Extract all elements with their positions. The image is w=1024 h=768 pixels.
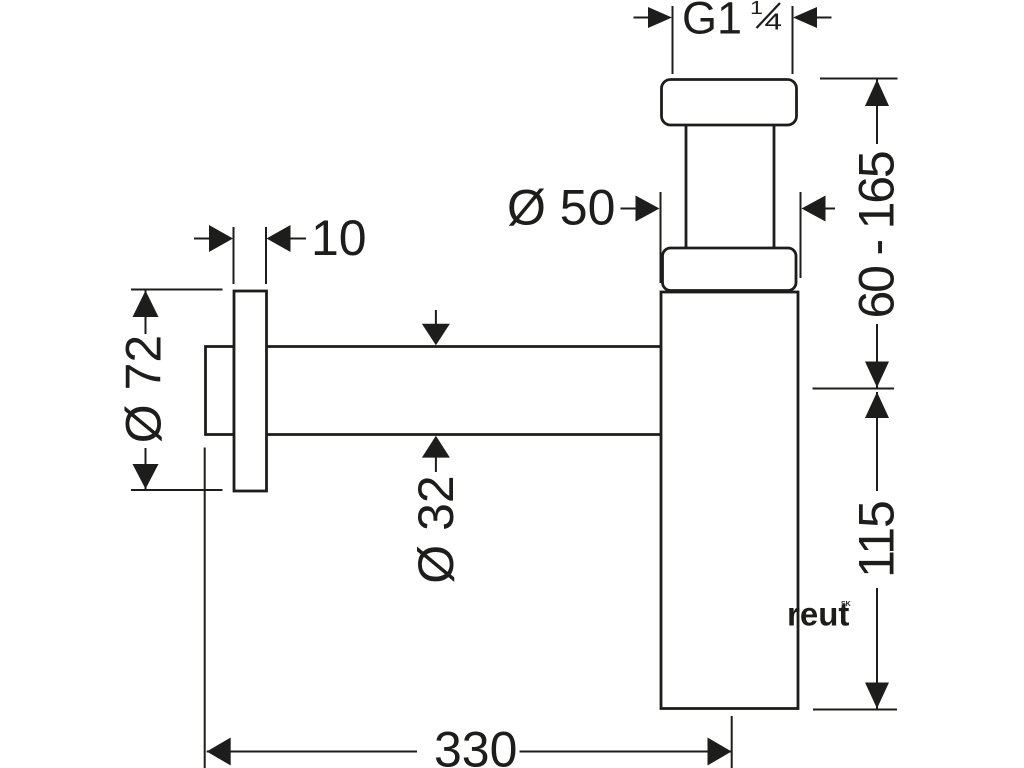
svg-text:60 - 165: 60 - 165 — [849, 152, 905, 318]
svg-text:reut: reut — [787, 596, 849, 633]
svg-text:10: 10 — [311, 210, 367, 266]
svg-text:Ø 32: Ø 32 — [408, 475, 464, 583]
svg-text:Ø 72: Ø 72 — [116, 335, 172, 443]
svg-text:SK: SK — [841, 601, 851, 608]
svg-text:4: 4 — [765, 9, 783, 35]
svg-text:330: 330 — [434, 722, 517, 768]
svg-text:Ø 50: Ø 50 — [507, 180, 615, 236]
svg-text:G1: G1 — [682, 0, 742, 44]
svg-text:115: 115 — [849, 501, 905, 578]
svg-text:1: 1 — [750, 0, 763, 18]
